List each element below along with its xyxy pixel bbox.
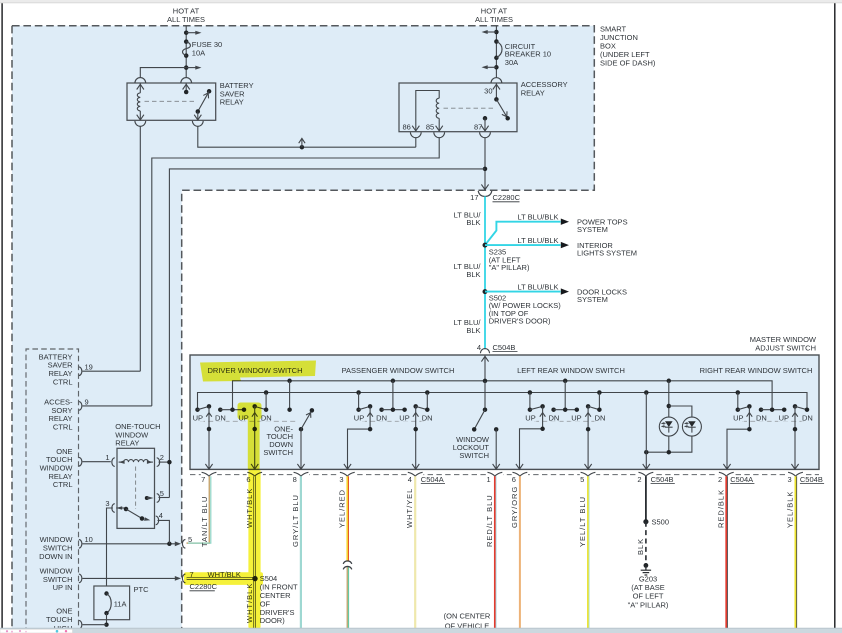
svg-text:BLK: BLK	[466, 326, 480, 335]
svg-text:UP: UP	[733, 414, 743, 423]
svg-text:3: 3	[339, 475, 343, 484]
connector C2280C boundary pin 7	[182, 574, 185, 583]
accessory relay 87 contact	[483, 116, 488, 121]
highlight WHT/BLK horizontal run	[184, 572, 263, 585]
svg-text:TAN/LT BLU: TAN/LT BLU	[200, 496, 209, 547]
svg-text:C504B: C504B	[800, 475, 823, 484]
left rear rocker2 lever	[586, 404, 591, 409]
svg-text:UP: UP	[193, 414, 203, 423]
svg-text:DOWN IN: DOWN IN	[39, 552, 72, 561]
wire ground bus	[198, 393, 808, 410]
wire pin 19 to battery saver coil	[83, 370, 141, 372]
terminal bump switch bottom	[192, 121, 203, 126]
svg-text:DN: DN	[548, 414, 559, 423]
driver rocker1 lever	[198, 406, 210, 409]
svg-text:RIGHT REAR WINDOW SWITCH: RIGHT REAR WINDOW SWITCH	[700, 366, 813, 375]
svg-text:6: 6	[512, 475, 516, 484]
smart junction box dashed border	[12, 26, 594, 633]
svg-text:CTRL: CTRL	[53, 480, 73, 489]
svg-text:DRIVER'S DOOR): DRIVER'S DOOR)	[489, 317, 551, 326]
battery saver relay switch	[183, 84, 190, 89]
svg-text:BLK: BLK	[466, 270, 480, 279]
svg-text:85: 85	[426, 122, 434, 131]
wire pin 3 to PTC	[107, 508, 113, 586]
node splice S235	[483, 243, 488, 248]
svg-text:30: 30	[484, 86, 492, 95]
svg-text:8: 8	[293, 475, 297, 484]
connector C2280C pin 17	[478, 191, 492, 197]
wire branch to power tops system	[485, 222, 561, 245]
svg-text:9: 9	[85, 397, 89, 406]
wire LT BLU/BLK trunk	[484, 196, 486, 349]
wire GRY/LT BLU pin8	[300, 476, 302, 628]
right rear rocker2 output wire pin3	[794, 406, 796, 469]
svg-text:19: 19	[85, 363, 93, 372]
connector 5 boundary	[182, 540, 185, 549]
svg-text:4: 4	[159, 511, 163, 520]
svg-text:BLK: BLK	[636, 538, 645, 555]
node junction relay pin4 on down-in wire	[167, 542, 172, 547]
circuit breaker CB10 30A	[494, 39, 499, 44]
wire feed bus	[233, 381, 773, 410]
module pin 19	[79, 367, 82, 376]
wire RED/LT BLU pin1	[494, 476, 496, 628]
wire 87 branch to one-touch relay	[169, 169, 485, 498]
svg-text:DN: DN	[422, 414, 433, 423]
switch linkage dashed left rear	[534, 420, 596, 422]
highlight S504 splice	[247, 571, 262, 586]
window lockout switch	[483, 407, 488, 412]
svg-text:CTRL: CTRL	[53, 377, 73, 386]
battery saver relay linkage dashed	[145, 100, 195, 102]
svg-text:17: 17	[470, 193, 478, 202]
driver door module dashed box	[26, 349, 79, 633]
node breaker top junction	[494, 30, 499, 35]
wire up in to connector C2280C	[83, 577, 178, 579]
driver switch tie DN1-UP2	[220, 409, 244, 411]
wire fuse feed vertical	[185, 26, 187, 78]
wire BLK pin2 to S500	[645, 476, 647, 522]
wire pin 5 to 87 feed	[159, 497, 170, 499]
highlight driver window switch title	[200, 361, 316, 382]
fuse F30 10A	[184, 39, 189, 44]
wire 86 vertical	[415, 138, 417, 148]
PTC element 11A	[104, 591, 108, 595]
right rear rocker1 contacts	[736, 407, 741, 412]
one-touch relay pin 4	[156, 516, 159, 525]
svg-text:SWITCH: SWITCH	[263, 448, 293, 457]
wire continuation TAN/GRN below break	[346, 567, 348, 628]
highlight driver down wire in box	[248, 406, 260, 470]
svg-text:C504A: C504A	[421, 475, 444, 484]
accessory relay coil	[416, 91, 439, 131]
svg-text:DN: DN	[261, 414, 272, 423]
svg-text:4: 4	[477, 343, 481, 352]
svg-text:BLK: BLK	[466, 218, 480, 227]
svg-text:GRY/ORG: GRY/ORG	[510, 486, 519, 528]
terminal bump switch top	[181, 78, 192, 83]
node splice S504	[252, 576, 257, 581]
switch linkage dashed passenger	[362, 420, 424, 422]
wire battery saver coil output to pin 19	[139, 126, 141, 371]
svg-text:PTC: PTC	[134, 585, 150, 594]
svg-text:RELAY: RELAY	[521, 89, 545, 98]
one-touch relay contact pin 5	[145, 496, 149, 500]
node feed bus junctions	[287, 379, 292, 384]
module pin 9	[79, 402, 82, 411]
window lockout output pin1	[494, 427, 499, 432]
wire branch to interior lights system	[485, 244, 561, 246]
wire GRY/ORG pin6 left rear	[519, 476, 521, 628]
module pin 10	[79, 540, 82, 549]
wire 85 to accessory relay ctrl	[152, 138, 439, 406]
labels UP DN UP DN passenger	[353, 414, 365, 421]
one-touch down switch lever	[299, 427, 304, 432]
svg-text:3: 3	[788, 475, 792, 484]
svg-text:10: 10	[85, 535, 93, 544]
node breaker bottom junction	[494, 65, 499, 70]
terminal bump 30 top	[491, 78, 502, 83]
driver rocker2 output wire pin6	[254, 406, 256, 469]
passenger rocker1 contacts	[356, 407, 361, 412]
wire BLK dashed to ground	[645, 522, 647, 566]
module pin one touch relay ctrl	[79, 457, 82, 466]
svg-text:RELAY: RELAY	[115, 439, 139, 448]
svg-text:G203: G203	[639, 574, 657, 583]
bottom left tooltip box	[0, 629, 73, 633]
svg-text:YEL/BLK: YEL/BLK	[786, 491, 795, 528]
wire ctrl to one-touch relay pin1	[83, 461, 111, 463]
svg-text:5: 5	[160, 489, 164, 498]
svg-text:5: 5	[580, 475, 584, 484]
module pin up in	[79, 574, 82, 583]
wire ground bus drop pin2	[645, 393, 647, 470]
wire WHT/BLK vertical pin6	[253, 476, 256, 628]
svg-text:LIGHTS SYSTEM: LIGHTS SYSTEM	[577, 249, 637, 258]
labels UP DN UP DN right rear	[733, 414, 745, 421]
right frame line	[834, 3, 836, 633]
wire circuit breaker feed vertical	[495, 26, 497, 78]
one-touch relay pin 3 armature	[112, 504, 115, 513]
svg-text:2: 2	[718, 475, 722, 484]
driver rocker2 lever	[252, 404, 257, 409]
switch linkage dashed driver	[200, 420, 296, 422]
svg-text:SYSTEM: SYSTEM	[577, 295, 608, 304]
connector dips under box	[201, 471, 217, 477]
svg-text:1: 1	[105, 453, 109, 462]
svg-text:WHT/YEL: WHT/YEL	[405, 488, 414, 528]
svg-text:"A" PILLAR): "A" PILLAR)	[489, 263, 530, 272]
labels UP DN UP DN driver	[192, 414, 204, 421]
accessory relay linkage dashed	[444, 107, 494, 109]
wire branch to battery saver relay	[140, 68, 186, 78]
passenger rocker2 output wire pin4	[415, 406, 417, 469]
terminal bump coil bottom	[135, 121, 146, 126]
one-touch relay coil horizontal	[119, 460, 125, 464]
svg-text:CTRL: CTRL	[53, 423, 73, 432]
labels UP DN UP DN left rear	[525, 414, 537, 421]
wire WHT/YEL pin4	[414, 476, 416, 628]
svg-text:DOOR): DOOR)	[260, 616, 286, 625]
relay K1 battery saver relay box	[127, 83, 216, 120]
svg-text:(AT BASE: (AT BASE	[631, 583, 664, 592]
node fuse bottom junction	[184, 65, 189, 70]
svg-text:86: 86	[402, 122, 410, 131]
wire pin 10 to connector 5	[83, 543, 178, 545]
node junction on 86 wire with up arrow	[300, 145, 305, 150]
right rear rocker1 output wire pin2	[727, 406, 749, 469]
switch linkage dashed right rear	[742, 420, 804, 422]
svg-text:DN: DN	[595, 414, 606, 423]
svg-text:UP: UP	[354, 414, 364, 423]
left rear rocker1 contacts	[528, 407, 533, 412]
svg-text:SYSTEM: SYSTEM	[577, 225, 608, 234]
svg-text:RELAY: RELAY	[220, 98, 244, 107]
svg-text:LT BLU/BLK: LT BLU/BLK	[518, 213, 559, 222]
svg-text:S500: S500	[652, 517, 670, 526]
wire 87 output vertical	[484, 138, 486, 190]
wire YEL/RED pin3	[346, 476, 348, 561]
ground G203	[644, 563, 649, 568]
svg-text:10A: 10A	[192, 49, 205, 58]
svg-text:SWITCH: SWITCH	[459, 451, 489, 460]
node fuse top junction	[184, 30, 189, 35]
svg-text:UP: UP	[571, 414, 581, 423]
svg-text:11A: 11A	[114, 599, 127, 608]
svg-text:ADJUST SWITCH: ADJUST SWITCH	[755, 344, 816, 353]
one-touch relay linkage dashed	[135, 467, 137, 510]
wire LED feed	[668, 381, 670, 417]
svg-text:LEFT REAR WINDOW SWITCH: LEFT REAR WINDOW SWITCH	[517, 366, 625, 375]
terminal bump coil top	[135, 78, 146, 83]
svg-text:SIDE OF DASH): SIDE OF DASH)	[600, 58, 656, 67]
svg-text:DN: DN	[756, 414, 767, 423]
node ground bus junctions	[264, 390, 269, 395]
driver rocker1 output wire pin7	[208, 406, 210, 469]
svg-text:1: 1	[487, 475, 491, 484]
battery saver relay coil	[137, 84, 144, 89]
svg-text:4: 4	[408, 475, 412, 484]
svg-text:C504A: C504A	[730, 475, 753, 484]
passenger rocker2 lever	[413, 404, 418, 409]
one-touch down switch contact	[287, 407, 292, 412]
one-touch down switch output pin8	[300, 429, 302, 469]
left rear rocker1 lever	[530, 406, 543, 409]
svg-text:UP: UP	[525, 414, 535, 423]
passenger rocker1 output wire pin3	[348, 406, 371, 469]
wire break symbol	[343, 561, 352, 564]
svg-text:DN: DN	[802, 414, 813, 423]
accessory relay switch	[493, 84, 500, 89]
svg-text:ALL TIMES: ALL TIMES	[475, 15, 513, 24]
svg-text:UP IN: UP IN	[53, 583, 73, 592]
wire PTC output	[106, 613, 108, 625]
wire TAN/LT BLU pin7 to connector 5	[187, 476, 210, 543]
svg-text:RED/LT BLU: RED/LT BLU	[485, 494, 494, 547]
wire branch to door locks system	[485, 291, 561, 293]
wire YEL/BLK pin3 right rear	[795, 476, 797, 628]
svg-text:C2280C: C2280C	[493, 193, 521, 202]
svg-text:2: 2	[637, 475, 641, 484]
LED D1	[659, 417, 678, 436]
driver rocker1 contacts	[195, 407, 200, 412]
passenger switch tie DN1-UP2	[382, 409, 405, 411]
one-touch relay pin 1	[112, 458, 115, 467]
connector C504B pin 4	[480, 349, 489, 354]
top gray strip	[0, 0, 842, 3]
passenger rocker1 lever	[359, 406, 371, 409]
wire C504B into box with up arrow	[484, 356, 486, 381]
smart junction box region blue fill	[12, 26, 594, 633]
svg-text:(ON CENTER: (ON CENTER	[444, 612, 491, 621]
svg-text:ONE: ONE	[56, 606, 72, 615]
terminal bump 87	[480, 132, 491, 137]
svg-text:UP: UP	[399, 414, 409, 423]
master window adjust switch box	[190, 355, 819, 469]
left rear switch tie DN1-UP2	[554, 409, 577, 411]
svg-text:LT BLU/BLK: LT BLU/BLK	[518, 236, 559, 245]
left rear rocker1 output wire pin6	[520, 406, 543, 469]
module pin one touch high	[79, 620, 82, 629]
wire pin 4 to down-in junction	[158, 520, 170, 543]
bottom scrollbar strip	[0, 628, 842, 633]
svg-text:OF LEFT: OF LEFT	[633, 592, 664, 601]
relay K2 accessory relay box	[399, 83, 517, 132]
svg-text:DN: DN	[215, 414, 226, 423]
LED D2	[682, 417, 701, 436]
one-touch relay pin 2	[157, 458, 160, 467]
wire battery saver switch output	[198, 126, 416, 147]
right rear rocker1 lever	[738, 406, 750, 409]
svg-text:YEL/LT BLU: YEL/LT BLU	[578, 496, 587, 547]
svg-text:YEL/RED: YEL/RED	[338, 489, 347, 528]
svg-text:GRY/LT BLU: GRY/LT BLU	[291, 494, 300, 547]
svg-text:RED/BLK: RED/BLK	[717, 489, 726, 528]
node splice S500	[643, 519, 648, 524]
svg-text:30A: 30A	[505, 58, 518, 67]
highlight blob UP label	[238, 403, 262, 420]
svg-text:LT BLU/BLK: LT BLU/BLK	[518, 282, 559, 291]
wire RED/BLK pin2 right rear	[725, 476, 727, 628]
wire LED2 feed branch	[669, 406, 692, 417]
wire LED cathodes to ground tie	[668, 436, 670, 452]
connector C504 dashed line	[190, 474, 819, 476]
svg-text:PASSENGER WINDOW SWITCH: PASSENGER WINDOW SWITCH	[342, 366, 455, 375]
left frame line	[1, 3, 3, 633]
svg-text:2: 2	[160, 453, 164, 462]
right rear switch tie DN1-UP2	[761, 409, 784, 411]
terminal bump 86	[410, 132, 421, 137]
terminal bump 85	[434, 132, 445, 137]
svg-text:TOUCH: TOUCH	[46, 615, 73, 624]
svg-text:C504B: C504B	[651, 475, 674, 484]
svg-text:ALL TIMES: ALL TIMES	[167, 15, 205, 24]
highlight WHT/BLK wire below box	[248, 470, 260, 628]
svg-text:5: 5	[188, 535, 192, 544]
wire WHT/BLK horizontal to S504	[187, 577, 255, 580]
node splice S502	[483, 289, 488, 294]
svg-text:"A" PILLAR): "A" PILLAR)	[628, 600, 669, 609]
svg-text:7: 7	[201, 475, 205, 484]
node junction 87 branch	[483, 167, 488, 172]
svg-text:C504B: C504B	[493, 343, 516, 352]
svg-text:UP: UP	[779, 414, 789, 423]
svg-text:87: 87	[474, 122, 482, 131]
wire YEL/LT BLU pin5	[587, 476, 589, 628]
svg-text:3: 3	[105, 499, 109, 508]
left rear rocker2 output wire pin5	[587, 406, 589, 469]
wire feed drops from buses	[289, 381, 291, 410]
wire pin 9 to accessory relay coil	[83, 405, 152, 407]
right rear rocker2 lever	[793, 404, 798, 409]
PTC box	[94, 586, 130, 620]
relay K3 one-touch window relay box	[117, 448, 155, 528]
svg-text:DN: DN	[376, 414, 387, 423]
wire pin 2 to 87 feed	[159, 461, 170, 463]
